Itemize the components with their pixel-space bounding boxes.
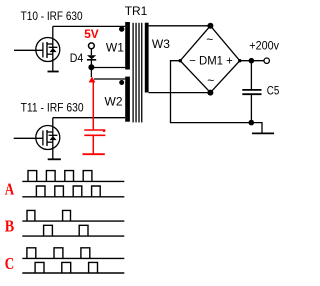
svg-text:− DM1 +: − DM1 + — [189, 56, 233, 68]
svg-text:W1: W1 — [106, 40, 124, 54]
svg-text:B: B — [5, 217, 14, 236]
svg-text:W2: W2 — [105, 95, 123, 109]
svg-text:TR1: TR1 — [125, 4, 148, 18]
svg-text:T10 - IRF 630: T10 - IRF 630 — [21, 9, 83, 23]
svg-text:W3: W3 — [152, 37, 170, 51]
svg-text:C5: C5 — [267, 84, 280, 98]
svg-text:+200v: +200v — [249, 38, 279, 52]
svg-text:C: C — [5, 254, 14, 273]
svg-text:5V: 5V — [84, 27, 99, 41]
svg-text:~: ~ — [206, 33, 213, 47]
svg-text:T11 - IRF 630: T11 - IRF 630 — [21, 100, 84, 114]
svg-text:D4: D4 — [70, 51, 84, 65]
svg-text:~: ~ — [207, 74, 214, 88]
svg-text:A: A — [5, 179, 15, 198]
